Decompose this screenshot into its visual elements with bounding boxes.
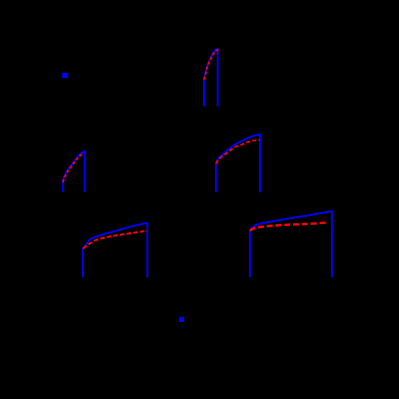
branch C: blue solid curve with jump verticals (216, 134, 260, 192)
branch E: red dashed approximation curve (250, 222, 328, 230)
branch E: blue solid curve with jump verticals (250, 211, 332, 277)
blue square marker S1 (upper left) (62, 73, 68, 78)
branch A: red dashed approximation curve (63, 153, 84, 182)
blue square marker S2 (lower middle) (179, 317, 184, 322)
branch A: blue solid curve with jump verticals (63, 151, 85, 192)
branch B: blue solid curve with jump verticals (204, 49, 218, 107)
branch C: red dashed approximation curve (216, 140, 260, 164)
branch B: red dashed approximation curve (204, 50, 218, 79)
branch D: blue solid curve with jump verticals (83, 223, 147, 277)
branch D: red dashed approximation curve (83, 231, 147, 249)
